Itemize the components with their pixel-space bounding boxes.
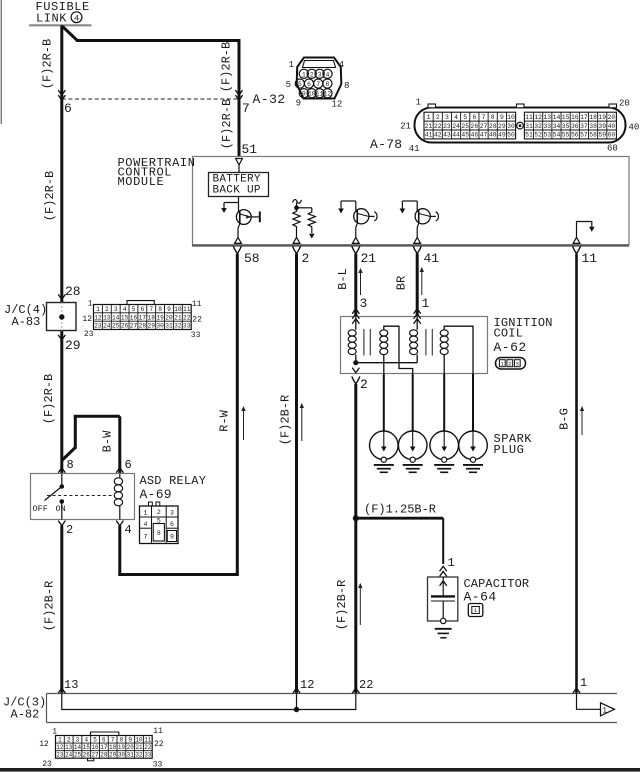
svg-text:A-64: A-64 bbox=[464, 590, 497, 605]
svg-text:(F)2R-B: (F)2R-B bbox=[220, 99, 234, 149]
ASD relay box bbox=[31, 474, 135, 520]
svg-text:2: 2 bbox=[436, 114, 440, 121]
svg-text:14: 14 bbox=[553, 114, 561, 121]
PCM pin 2 bbox=[293, 246, 301, 254]
svg-text:(F)2R-B: (F)2R-B bbox=[220, 42, 234, 92]
svg-text:1: 1 bbox=[416, 98, 421, 108]
svg-text:18: 18 bbox=[589, 114, 597, 121]
node (F)1.25B-R branch bbox=[353, 516, 358, 521]
battery back up box bbox=[209, 173, 269, 197]
svg-text:22: 22 bbox=[183, 314, 191, 321]
svg-text:1: 1 bbox=[144, 510, 148, 517]
svg-text:22: 22 bbox=[192, 316, 202, 325]
svg-text:1: 1 bbox=[427, 114, 431, 121]
svg-text:A-62: A-62 bbox=[494, 340, 527, 355]
svg-text:1: 1 bbox=[58, 736, 62, 743]
svg-text:8: 8 bbox=[491, 114, 495, 121]
svg-text:12: 12 bbox=[82, 315, 92, 324]
svg-text:55: 55 bbox=[562, 132, 570, 139]
svg-text:23: 23 bbox=[56, 752, 64, 759]
wire: fusible link main vertical (F)2R-B bbox=[60, 25, 63, 302]
capacitor ground bbox=[435, 628, 452, 630]
svg-text:1: 1 bbox=[422, 296, 430, 311]
svg-text:12: 12 bbox=[39, 740, 49, 749]
svg-text:32: 32 bbox=[174, 323, 182, 330]
svg-text:A-82: A-82 bbox=[11, 708, 40, 722]
svg-text:6: 6 bbox=[102, 736, 106, 743]
svg-text:25: 25 bbox=[112, 323, 120, 330]
core bars 1 bbox=[363, 329, 365, 356]
wire (F)2B-R coil pin 2 down bbox=[354, 384, 357, 694]
svg-text:31: 31 bbox=[127, 752, 135, 759]
svg-text:13: 13 bbox=[65, 744, 73, 751]
wire R-W horizontal to relay pin 4 bbox=[118, 573, 239, 576]
svg-text:13: 13 bbox=[64, 678, 78, 692]
A-32 pins row 1 (1-4) bbox=[299, 69, 308, 78]
svg-text:A-32: A-32 bbox=[253, 92, 286, 107]
svg-text:46: 46 bbox=[471, 132, 479, 139]
svg-text:47: 47 bbox=[480, 132, 488, 139]
Q1 ground triangle bbox=[235, 237, 242, 243]
svg-text:30: 30 bbox=[118, 752, 126, 759]
svg-text:27: 27 bbox=[480, 123, 488, 130]
svg-text:24: 24 bbox=[65, 752, 73, 759]
fusible link underline bbox=[29, 24, 92, 26]
transistor Q3 bbox=[402, 200, 417, 202]
svg-text:1: 1 bbox=[96, 306, 100, 313]
svg-text:51: 51 bbox=[525, 132, 533, 139]
svg-text:1: 1 bbox=[501, 360, 505, 367]
wire BR pin 41 to coil pin 1 bbox=[416, 254, 419, 317]
svg-text:23: 23 bbox=[42, 760, 52, 769]
svg-text:3: 3 bbox=[360, 296, 368, 311]
PCM pin 21 bbox=[352, 246, 360, 254]
svg-text:29: 29 bbox=[109, 752, 117, 759]
svg-text:8: 8 bbox=[344, 81, 349, 91]
svg-text:2: 2 bbox=[302, 251, 310, 266]
pin 51 entry triangle bbox=[236, 159, 243, 166]
junction box J/C(4) bbox=[47, 303, 77, 331]
svg-text:12: 12 bbox=[56, 744, 64, 751]
svg-text:10: 10 bbox=[135, 736, 143, 743]
secondary coil 2 bbox=[440, 330, 448, 336]
svg-text:54: 54 bbox=[553, 132, 561, 139]
A-83 grid handle bbox=[127, 301, 154, 305]
svg-text:B-G: B-G bbox=[558, 408, 572, 430]
svg-text:5: 5 bbox=[93, 736, 97, 743]
svg-text:26: 26 bbox=[471, 123, 479, 130]
svg-text:15: 15 bbox=[121, 314, 129, 321]
coil pin 3 arrows bbox=[352, 309, 359, 314]
circled 4 bbox=[71, 12, 82, 23]
svg-text:22: 22 bbox=[144, 744, 152, 751]
svg-text:2: 2 bbox=[310, 71, 314, 78]
svg-text:11: 11 bbox=[183, 306, 191, 313]
svg-text:28: 28 bbox=[100, 752, 108, 759]
svg-text:38: 38 bbox=[589, 123, 597, 130]
A-32 pins row 2 (5-8) bbox=[295, 79, 304, 88]
bus output to arrow bbox=[577, 694, 601, 710]
svg-text:60: 60 bbox=[607, 144, 618, 154]
svg-text:11: 11 bbox=[153, 727, 163, 736]
core bars 2 bbox=[425, 329, 427, 356]
svg-text:28: 28 bbox=[139, 323, 147, 330]
svg-text:52: 52 bbox=[534, 132, 542, 139]
A-78 top tabs bbox=[428, 104, 436, 108]
resistor pair R1 R2 bbox=[293, 200, 302, 204]
svg-text:30: 30 bbox=[507, 123, 515, 130]
svg-text:21: 21 bbox=[174, 314, 182, 321]
svg-text:12: 12 bbox=[300, 678, 314, 692]
svg-text:28: 28 bbox=[65, 284, 81, 299]
svg-text:41: 41 bbox=[409, 144, 420, 154]
svg-text:1: 1 bbox=[302, 71, 306, 78]
svg-text:ON: ON bbox=[56, 504, 66, 514]
transistor Q2 bbox=[341, 200, 356, 202]
svg-text:40: 40 bbox=[608, 123, 616, 130]
svg-text:BR: BR bbox=[395, 276, 409, 290]
secondary coil 1 bbox=[380, 330, 388, 336]
svg-text:43: 43 bbox=[443, 132, 451, 139]
pin 29 label bbox=[58, 335, 65, 340]
svg-text:29: 29 bbox=[498, 123, 506, 130]
svg-text:COIL: COIL bbox=[494, 327, 524, 341]
svg-text:9: 9 bbox=[167, 306, 171, 313]
bus internal link bbox=[62, 694, 356, 710]
svg-text:17: 17 bbox=[139, 314, 147, 321]
svg-text:1: 1 bbox=[474, 607, 478, 614]
relay switch bbox=[61, 474, 63, 486]
svg-text:2: 2 bbox=[157, 509, 161, 516]
svg-text:33: 33 bbox=[153, 761, 163, 770]
svg-text:13: 13 bbox=[543, 114, 551, 121]
svg-text:32: 32 bbox=[534, 123, 542, 130]
svg-text:5: 5 bbox=[298, 81, 302, 88]
svg-text:4: 4 bbox=[144, 521, 148, 528]
svg-text:10: 10 bbox=[507, 114, 515, 121]
A-64 connector icon bbox=[468, 604, 483, 617]
svg-text:49: 49 bbox=[498, 132, 506, 139]
svg-text:30: 30 bbox=[156, 323, 164, 330]
coil pin 2 exit bbox=[352, 368, 359, 373]
svg-text:45: 45 bbox=[461, 132, 469, 139]
svg-text:20: 20 bbox=[165, 314, 173, 321]
wire (F)2B-R pin 2 to J/C bbox=[295, 254, 298, 694]
svg-text:24: 24 bbox=[103, 323, 111, 330]
svg-text:7: 7 bbox=[149, 306, 153, 313]
svg-text:17: 17 bbox=[580, 114, 588, 121]
svg-text:44: 44 bbox=[452, 132, 460, 139]
svg-text:8: 8 bbox=[67, 458, 74, 472]
svg-text:21: 21 bbox=[400, 122, 411, 132]
svg-text:23: 23 bbox=[94, 323, 102, 330]
svg-text:21: 21 bbox=[425, 123, 433, 130]
svg-text:9: 9 bbox=[296, 99, 301, 109]
page left edge line bbox=[0, 0, 2, 124]
svg-text:9: 9 bbox=[128, 736, 132, 743]
svg-text:5: 5 bbox=[463, 114, 467, 121]
wire R-W from pin 58 bbox=[236, 254, 239, 575]
svg-text:42: 42 bbox=[434, 132, 442, 139]
spark plugs bbox=[370, 431, 399, 460]
svg-text:41: 41 bbox=[425, 132, 433, 139]
spark plug wires bbox=[383, 374, 385, 431]
svg-text:1: 1 bbox=[602, 707, 607, 716]
svg-text:1: 1 bbox=[88, 300, 93, 309]
svg-text:9: 9 bbox=[170, 534, 174, 541]
capacitor plates bbox=[431, 595, 455, 597]
svg-text:2: 2 bbox=[508, 360, 512, 367]
svg-text:57: 57 bbox=[580, 132, 588, 139]
wire: branch horizontal to A-32 side bbox=[76, 39, 239, 42]
svg-text:12: 12 bbox=[332, 100, 343, 110]
svg-text:29: 29 bbox=[148, 323, 156, 330]
primary coil 1 bbox=[355, 317, 357, 330]
svg-text:39: 39 bbox=[598, 123, 606, 130]
connector arrows pin 6 bbox=[58, 90, 65, 95]
svg-text:20: 20 bbox=[127, 744, 135, 751]
svg-text:21: 21 bbox=[135, 744, 143, 751]
svg-text:17: 17 bbox=[100, 744, 108, 751]
A-32 top slot bbox=[303, 61, 336, 68]
svg-text:33: 33 bbox=[183, 323, 191, 330]
svg-text:48: 48 bbox=[489, 132, 497, 139]
svg-text:MODULE: MODULE bbox=[118, 175, 165, 189]
svg-text:27: 27 bbox=[91, 752, 99, 759]
svg-text:20: 20 bbox=[608, 114, 616, 121]
svg-text:7: 7 bbox=[111, 736, 115, 743]
svg-text:18: 18 bbox=[148, 314, 156, 321]
svg-text:25: 25 bbox=[74, 752, 82, 759]
svg-text:6: 6 bbox=[472, 114, 476, 121]
svg-text:3: 3 bbox=[170, 510, 174, 517]
svg-text:22: 22 bbox=[154, 740, 164, 749]
svg-text:2: 2 bbox=[105, 306, 109, 313]
svg-text:BACK UP: BACK UP bbox=[213, 185, 261, 197]
svg-text:53: 53 bbox=[543, 132, 551, 139]
svg-text:11: 11 bbox=[582, 251, 598, 266]
svg-text:34: 34 bbox=[553, 123, 561, 130]
coil pin 1 arrows bbox=[414, 309, 421, 314]
svg-text:A-69: A-69 bbox=[140, 487, 172, 502]
svg-text:26: 26 bbox=[121, 323, 129, 330]
svg-text:8: 8 bbox=[157, 530, 161, 537]
svg-text:27: 27 bbox=[130, 323, 138, 330]
svg-text:23: 23 bbox=[443, 123, 451, 130]
svg-text:7: 7 bbox=[316, 81, 320, 88]
svg-text:1: 1 bbox=[448, 556, 455, 570]
svg-text:3: 3 bbox=[318, 71, 322, 78]
svg-text:(F)2B-R: (F)2B-R bbox=[279, 395, 293, 445]
coil common node bbox=[354, 361, 358, 365]
primary coil 2 bbox=[416, 317, 418, 330]
svg-text:12: 12 bbox=[94, 314, 102, 321]
Q2 ground triangle bbox=[352, 237, 359, 243]
wire B-W branch bbox=[62, 448, 76, 461]
svg-text:6: 6 bbox=[307, 81, 311, 88]
capacitor C1 box bbox=[428, 577, 458, 621]
J/C(3) bus rectangle bbox=[47, 693, 618, 695]
svg-text:12: 12 bbox=[324, 91, 332, 98]
svg-text:5: 5 bbox=[286, 80, 291, 90]
svg-text:13: 13 bbox=[103, 314, 111, 321]
svg-text:(F)2R-B: (F)2R-B bbox=[41, 39, 55, 89]
relay pin 2 bbox=[58, 521, 65, 526]
connector A-32 face outline bbox=[297, 58, 342, 99]
svg-text:35: 35 bbox=[562, 123, 570, 130]
svg-text:LINK: LINK bbox=[36, 12, 67, 26]
svg-text:ASD RELAY: ASD RELAY bbox=[140, 474, 207, 488]
svg-text:(F)2R-B: (F)2R-B bbox=[42, 374, 56, 424]
svg-text:A-83: A-83 bbox=[12, 315, 41, 329]
svg-text:4: 4 bbox=[339, 60, 344, 70]
svg-text:(F)1.25B-R: (F)1.25B-R bbox=[364, 503, 436, 517]
connector A-78 outline bbox=[415, 108, 626, 143]
svg-text:19: 19 bbox=[598, 114, 606, 121]
wire: branch diagonal bbox=[63, 27, 78, 41]
R1 ground triangle bbox=[293, 237, 300, 243]
svg-text:9: 9 bbox=[500, 114, 504, 121]
svg-text:10: 10 bbox=[174, 306, 182, 313]
ignition coil box bbox=[341, 317, 488, 374]
svg-text:33: 33 bbox=[191, 331, 201, 340]
svg-text:31: 31 bbox=[165, 323, 173, 330]
page bottom bar bbox=[0, 768, 640, 772]
svg-text:19: 19 bbox=[156, 314, 164, 321]
svg-text:3: 3 bbox=[516, 360, 520, 367]
svg-text:2: 2 bbox=[67, 736, 71, 743]
svg-text:26: 26 bbox=[83, 752, 91, 759]
wire B-L pin 21 to coil pin 3 bbox=[354, 254, 357, 317]
svg-text:15: 15 bbox=[562, 114, 570, 121]
svg-text:2: 2 bbox=[66, 523, 73, 537]
svg-text:29: 29 bbox=[65, 338, 81, 353]
Q3 ground triangle bbox=[414, 237, 421, 243]
svg-text:4: 4 bbox=[74, 13, 79, 23]
svg-text:22: 22 bbox=[359, 678, 373, 692]
svg-text:3: 3 bbox=[114, 306, 118, 313]
svg-text:4: 4 bbox=[84, 736, 88, 743]
svg-text:(F)2R-B: (F)2R-B bbox=[43, 171, 57, 221]
svg-text:7: 7 bbox=[482, 114, 486, 121]
svg-text:9: 9 bbox=[302, 91, 306, 98]
svg-text:(F)2B-R: (F)2B-R bbox=[335, 580, 349, 630]
svg-text:11: 11 bbox=[144, 736, 152, 743]
PCM pin 11 bbox=[573, 246, 581, 254]
svg-text:A-78: A-78 bbox=[370, 137, 402, 152]
svg-text:14: 14 bbox=[74, 744, 82, 751]
svg-text:1: 1 bbox=[580, 676, 587, 690]
svg-text:16: 16 bbox=[91, 744, 99, 751]
svg-text:8: 8 bbox=[120, 736, 124, 743]
svg-text:7: 7 bbox=[144, 534, 148, 541]
svg-text:3: 3 bbox=[445, 114, 449, 121]
svg-text:PLUG: PLUG bbox=[494, 443, 525, 457]
svg-text:4: 4 bbox=[454, 114, 458, 121]
svg-text:1: 1 bbox=[289, 60, 294, 70]
connector A-69 pin grid bbox=[149, 502, 153, 506]
connector A-83 pin grid bbox=[94, 305, 192, 330]
svg-text:51: 51 bbox=[242, 142, 258, 157]
A-78 center hole bbox=[517, 122, 524, 129]
svg-text:18: 18 bbox=[109, 744, 117, 751]
transistor Q1 bbox=[238, 196, 240, 212]
wire B-G pin 11 to J/C pin 1 bbox=[575, 254, 578, 694]
svg-text:R-W: R-W bbox=[218, 409, 232, 431]
svg-text:58: 58 bbox=[244, 251, 260, 266]
relay pin 4 bbox=[116, 521, 123, 526]
svg-text:6: 6 bbox=[140, 306, 144, 313]
svg-text:37: 37 bbox=[580, 123, 588, 130]
svg-text:21: 21 bbox=[361, 251, 377, 266]
svg-text:7: 7 bbox=[242, 101, 250, 116]
svg-text:4: 4 bbox=[123, 306, 127, 313]
PCM pin 58 bbox=[233, 246, 241, 254]
svg-text:1: 1 bbox=[52, 728, 57, 737]
svg-text:15: 15 bbox=[83, 744, 91, 751]
connector arrows pin 7 bbox=[235, 90, 242, 95]
svg-text:3: 3 bbox=[76, 736, 80, 743]
svg-text:50: 50 bbox=[507, 132, 515, 139]
svg-text:4: 4 bbox=[326, 71, 330, 78]
svg-text:(F)2B-R: (F)2B-R bbox=[43, 581, 57, 631]
svg-text:12: 12 bbox=[534, 114, 542, 121]
wire relay pin 2 down bbox=[60, 526, 63, 694]
svg-text:2: 2 bbox=[360, 377, 368, 392]
svg-text:58: 58 bbox=[589, 132, 597, 139]
svg-text:8: 8 bbox=[326, 81, 330, 88]
svg-text:36: 36 bbox=[571, 123, 579, 130]
svg-text:60: 60 bbox=[608, 132, 616, 139]
svg-text:20: 20 bbox=[619, 99, 630, 109]
svg-text:16: 16 bbox=[130, 314, 138, 321]
svg-text:28: 28 bbox=[489, 123, 497, 130]
PCM box bbox=[193, 157, 630, 246]
svg-text:5: 5 bbox=[132, 306, 136, 313]
svg-text:6: 6 bbox=[125, 458, 132, 472]
PCM internal jumper to pin 11 bbox=[577, 222, 592, 238]
svg-text:33: 33 bbox=[543, 123, 551, 130]
svg-text:11: 11 bbox=[192, 300, 202, 309]
svg-text:32: 32 bbox=[135, 752, 143, 759]
PCM pin 41 bbox=[413, 246, 421, 254]
svg-text:40: 40 bbox=[629, 123, 640, 133]
svg-text:6: 6 bbox=[170, 521, 174, 528]
svg-text:B-W: B-W bbox=[101, 430, 115, 452]
svg-text:56: 56 bbox=[571, 132, 579, 139]
svg-text:59: 59 bbox=[598, 132, 606, 139]
connector A-82 pin grid bbox=[56, 736, 153, 759]
svg-text:OFF: OFF bbox=[33, 504, 48, 514]
PCM bottom edge bbox=[192, 244, 629, 246]
wire relay pin 4 down bbox=[118, 526, 121, 577]
svg-text:B-L: B-L bbox=[336, 268, 350, 290]
svg-text:19: 19 bbox=[118, 744, 126, 751]
svg-text:24: 24 bbox=[452, 123, 460, 130]
svg-text:31: 31 bbox=[525, 123, 533, 130]
A-62 connector icon bbox=[496, 358, 526, 370]
svg-text:23: 23 bbox=[84, 330, 94, 339]
svg-text:14: 14 bbox=[112, 314, 120, 321]
svg-text:41: 41 bbox=[424, 251, 440, 266]
connector A-32 dashed line bbox=[62, 98, 239, 100]
relay coil bbox=[119, 474, 121, 479]
A-78 pin grid bbox=[424, 112, 516, 139]
wire: right vertical (F)2R-B to pin 51 bbox=[238, 39, 241, 157]
svg-text:6: 6 bbox=[64, 101, 72, 116]
A-82 grid handle bbox=[91, 732, 119, 736]
svg-text:11: 11 bbox=[525, 114, 533, 121]
